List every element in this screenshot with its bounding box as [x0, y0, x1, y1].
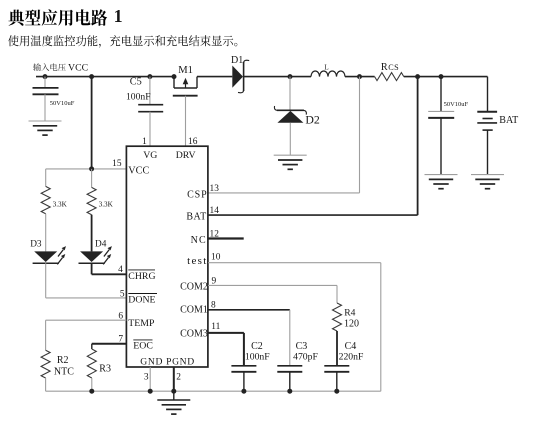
wire EOC to R3 — [92, 343, 127, 345]
ground under C-in — [29, 120, 62, 122]
wire D3 to DONE — [45, 263, 47, 298]
svg-text:1: 1 — [142, 137, 147, 147]
svg-text:D2: D2 — [305, 112, 320, 126]
ground under C-out — [425, 174, 458, 176]
svg-text:R3: R3 — [99, 364, 111, 375]
LED D3 — [34, 251, 57, 262]
wire left 3.3K to D3 — [45, 214, 47, 252]
svg-text:R4: R4 — [344, 308, 355, 319]
title 典型应用电路 1 — [8, 9, 107, 26]
transistor M1 (PMOS) — [173, 77, 175, 88]
svg-text:NC: NC — [191, 235, 207, 246]
IC U1 body — [126, 146, 207, 367]
junction dots bottom rail — [89, 389, 94, 394]
svg-text:50V10uF: 50V10uF — [444, 101, 469, 108]
svg-text:C4: C4 — [345, 341, 357, 352]
svg-text:5: 5 — [120, 289, 125, 299]
wire NC stub — [208, 237, 244, 239]
svg-text:COM2: COM2 — [180, 282, 208, 293]
svg-text:VG: VG — [143, 150, 157, 161]
wire VCC vertical to pin15 — [91, 77, 93, 169]
node: input VCC rail — [36, 76, 174, 78]
svg-text:1: 1 — [114, 6, 123, 26]
svg-text:3.3K: 3.3K — [99, 200, 114, 208]
svg-text:R2: R2 — [57, 355, 69, 366]
inductor L — [311, 71, 345, 77]
diode D2 (Schottky to ground) — [289, 77, 291, 110]
resistor RCS — [375, 73, 404, 81]
LED D4 — [80, 251, 103, 262]
wire test net — [208, 262, 381, 264]
wire PGND to ground — [173, 391, 175, 400]
wire TEMP to R2 — [46, 319, 127, 321]
ground under D2 — [274, 154, 307, 156]
wire left 3.3K top lead — [45, 169, 47, 187]
svg-text:D3: D3 — [30, 240, 42, 250]
battery BAT — [487, 77, 489, 111]
capacitor C5 100nF — [149, 77, 151, 105]
subtitle — [8, 35, 237, 48]
svg-text:4: 4 — [118, 265, 123, 275]
resistor R2 NTC — [41, 350, 50, 378]
diode D1 (Schottky) — [232, 66, 243, 88]
svg-text:220nF: 220nF — [339, 352, 364, 363]
wire R2 to rail — [45, 378, 47, 391]
node VCC/LED junction — [89, 166, 94, 171]
svg-text:M1: M1 — [178, 65, 193, 76]
svg-text:2: 2 — [176, 372, 181, 382]
svg-text:DONE: DONE — [128, 295, 155, 306]
svg-text:COM3: COM3 — [180, 328, 208, 339]
wire COM1 to C3 — [208, 309, 290, 311]
wire D4 to CHRG — [91, 263, 93, 274]
wire right 3.3K to D4 — [91, 215, 93, 252]
svg-text:L: L — [324, 64, 328, 72]
wire R4 to C4 — [336, 331, 338, 366]
svg-text:D4: D4 — [95, 240, 107, 250]
capacitor C-out 50V/10uF — [440, 77, 442, 111]
svg-text:14: 14 — [210, 206, 220, 216]
ground under PGND — [157, 399, 190, 401]
svg-text:120: 120 — [344, 318, 359, 329]
capacitor C-in 50V/10uF — [44, 77, 46, 88]
wire CSP net — [359, 77, 361, 193]
svg-text:C3: C3 — [296, 341, 308, 352]
svg-text:8: 8 — [211, 300, 216, 310]
ground under battery — [471, 174, 504, 176]
svg-text:13: 13 — [210, 184, 220, 194]
label 输入电压VCC — [33, 63, 65, 71]
resistor 3.3K (right) — [87, 187, 96, 214]
svg-text:15: 15 — [112, 159, 122, 169]
resistor 3.3K (left) — [41, 186, 50, 213]
svg-text:GND PGND: GND PGND — [140, 356, 195, 367]
svg-text:BAT: BAT — [499, 115, 518, 126]
pin 2 PGND wire — [173, 367, 175, 391]
svg-text:TEMP: TEMP — [128, 318, 155, 329]
svg-text:DRV: DRV — [176, 150, 196, 161]
svg-text:C2: C2 — [251, 341, 263, 352]
svg-text:50V10uF: 50V10uF — [50, 100, 75, 107]
svg-text:16: 16 — [188, 137, 198, 147]
wire COM3 to C2 — [208, 332, 244, 334]
svg-text:100nF: 100nF — [245, 352, 270, 363]
capacitor C2 100nF — [231, 365, 256, 367]
wire R3 to rail — [91, 378, 93, 391]
svg-text:11: 11 — [211, 322, 220, 332]
svg-text:D1: D1 — [231, 55, 243, 66]
svg-text:CSP: CSP — [187, 189, 208, 200]
svg-text:COM1: COM1 — [180, 305, 208, 316]
svg-text:NTC: NTC — [54, 367, 74, 378]
resistor R3 — [87, 349, 96, 378]
svg-text:10: 10 — [211, 252, 221, 262]
svg-text:3: 3 — [144, 372, 149, 382]
junction dots on VCC rail — [43, 74, 48, 79]
svg-text:VCC: VCC — [128, 166, 149, 177]
svg-text:C5: C5 — [130, 77, 142, 88]
capacitor C4 220nF — [324, 365, 349, 367]
ground rail (bottom) — [46, 390, 381, 392]
wire M1 gate to pin16 — [185, 96, 187, 147]
wire right 3.3K top lead — [91, 169, 93, 188]
svg-text:BAT: BAT — [186, 212, 206, 223]
svg-text:100nF: 100nF — [126, 92, 151, 103]
capacitor C3 470pF — [277, 365, 302, 367]
resistor R4 120 — [333, 303, 342, 331]
wire BAT net — [417, 77, 419, 216]
svg-text:EOC: EOC — [133, 341, 153, 352]
wire COM2 to R4 — [208, 284, 337, 286]
svg-text:CHRG: CHRG — [128, 271, 155, 282]
svg-text:test: test — [187, 255, 207, 267]
pin 3 GND wire — [149, 367, 151, 391]
svg-text:RCS: RCS — [381, 62, 399, 73]
svg-text:470pF: 470pF — [293, 352, 318, 363]
wire VCC pin15 horizontal — [46, 168, 127, 170]
svg-text:VCC: VCC — [68, 62, 88, 73]
svg-text:3.3K: 3.3K — [53, 200, 68, 208]
